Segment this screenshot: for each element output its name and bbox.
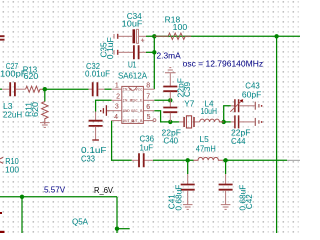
svg-text:SA612A: SA612A (118, 70, 147, 80)
svg-text:C40: C40 (164, 136, 179, 146)
capacitor C27 100pF (2, 82, 26, 96)
label 0.68uF of C42 rotated (237, 185, 247, 211)
label C43 (245, 80, 260, 90)
svg-text:OSC_E: OSC_E (131, 100, 143, 104)
label 22pF of C44 (231, 127, 251, 137)
pin 8 of U1 (143, 83, 154, 90)
svg-text:100: 100 (5, 165, 19, 175)
trimmer capacitor C43 60pF (230, 99, 254, 112)
pin name IN_B (123, 100, 133, 104)
crystal Y7 (179, 116, 200, 128)
pin name OSC_E (131, 100, 143, 104)
capacitor C40 22pF (163, 100, 177, 122)
pin 3 of U1 (107, 104, 121, 111)
capacitor C39 22pF (163, 87, 177, 101)
pin name GND (123, 110, 131, 114)
junction node C35 row (152, 50, 156, 54)
label 1uF of C36 (140, 143, 154, 153)
label L3 (3, 101, 13, 111)
pin 7 of U1 (143, 94, 154, 101)
capacitor C37 small on pin 3 (100, 105, 110, 116)
label 10uH of L4 (201, 106, 218, 116)
pin 5 of U1 with open-end circle (143, 114, 156, 121)
svg-text:5: 5 (147, 114, 151, 121)
wire pin 2 to C33 branch (96, 100, 112, 111)
wire input row segment after R13 (43, 88, 89, 90)
svg-text:2: 2 (116, 94, 120, 101)
svg-text:22uH: 22uH (3, 109, 22, 119)
svg-text:6: 6 (146, 104, 150, 111)
wire L4 to junction and up to C43 (224, 106, 231, 122)
wire bottom rail 5.57V row (0, 196, 117, 198)
label 2.3mA (157, 50, 182, 60)
label SA612A (118, 70, 147, 80)
ground for C41 (183, 205, 193, 210)
wire vertical from top net down to pin 8 of U1 (153, 36, 155, 89)
capacitor C41 0.68uF (181, 174, 195, 204)
label C33 (81, 153, 95, 163)
svg-text:10uF: 10uF (122, 18, 143, 28)
svg-text:2.3mA: 2.3mA (157, 50, 182, 60)
wire vertical at x=22 down from bottom rail (21, 197, 23, 233)
svg-text:osc = 12.796140MHz: osc = 12.796140MHz (183, 58, 264, 68)
label R13 (23, 65, 38, 75)
svg-text:0.68uF: 0.68uF (173, 185, 183, 211)
wire gray highlighted segment at right of L5 row (287, 159, 300, 161)
transistor Q5 fragment at bottom-left edge (0, 212, 5, 233)
label Y7 (184, 99, 194, 109)
ground for C42 (221, 205, 231, 210)
label L4 (205, 99, 214, 109)
label 0.1uF of C35 rotated (105, 37, 115, 59)
svg-text:1uF: 1uF (140, 143, 154, 153)
wire vertical right-side long net (276, 36, 278, 233)
capacitor C35 0.1uF (114, 45, 146, 59)
wire pin 7 to oscillator column (154, 99, 170, 101)
label 47mH of L5 (196, 144, 216, 154)
wire top net row from C34 to right edge (146, 35, 300, 37)
svg-text:C44: C44 (231, 136, 246, 146)
junction node top net at x154 (152, 34, 156, 38)
pin name IN_A (123, 89, 133, 93)
label osc frequency (183, 58, 264, 68)
pin 2 of U1 (112, 94, 122, 101)
junction node bottom x117 (115, 227, 119, 231)
svg-text:620: 620 (30, 102, 40, 117)
label 10uF (122, 18, 143, 28)
label C27 (6, 61, 19, 71)
label Q5A (72, 217, 88, 227)
wire between C32 and pin 1 (105, 88, 112, 90)
junction node crystal row left (168, 120, 172, 124)
wire C35 to vertical net (146, 51, 154, 53)
junction node oscillator C39/C40 (168, 98, 172, 102)
pin end ticks right of C44 (255, 118, 262, 126)
wire L5 right to right edge (223, 159, 287, 161)
label R_6V (94, 185, 113, 195)
svg-text:47mH: 47mH (196, 144, 216, 154)
label 22uH of L3 (3, 109, 22, 119)
capacitor C44 22pF (231, 115, 255, 128)
label 620 of R11 rotated (30, 102, 40, 117)
wire C36 to L5 row and right to gray end (153, 159, 194, 161)
label R10 (5, 156, 19, 166)
label R18 (165, 15, 181, 25)
svg-text:OUT_B: OUT_B (131, 120, 143, 124)
svg-text:3: 3 (115, 104, 119, 111)
wire C41 top lead (187, 160, 189, 174)
capacitor C36 1uF series (132, 153, 153, 167)
label 5.57V (44, 184, 66, 194)
label 100 of R10 (5, 165, 19, 175)
label C32 (86, 61, 100, 71)
label C42 rotated (244, 194, 254, 209)
svg-text:C39: C39 (182, 82, 192, 97)
pin name Vcc (136, 89, 143, 93)
wire pin 6 to crystal row (154, 111, 170, 122)
wire junction to C44 (224, 121, 231, 123)
label 60pF (242, 90, 262, 100)
ground for R11 (40, 123, 50, 128)
label 0.68uF of C41 rotated (173, 185, 183, 211)
svg-text:620: 620 (24, 71, 39, 81)
wire R11 top lead (44, 89, 46, 101)
inductor L5 47mH (194, 157, 223, 160)
label U1 (128, 60, 137, 70)
svg-text:U1: U1 (128, 60, 137, 70)
svg-text:10uH: 10uH (201, 106, 218, 116)
pin name OSC_B (131, 110, 143, 114)
capacitor fragment at top-left edge (0, 36, 5, 40)
junction node top net at x276 (274, 34, 278, 38)
junction node L5 left (186, 158, 190, 162)
resistor R11 620 vertical (42, 102, 48, 125)
label C40 (164, 136, 179, 146)
svg-text:0.1uF: 0.1uF (105, 37, 115, 59)
resistor R18 100 (154, 33, 191, 39)
label C36 (140, 133, 155, 143)
capacitor C32 0.01uF (89, 82, 105, 96)
svg-text:Vcc: Vcc (136, 89, 143, 93)
inductor L4 10uH (200, 119, 224, 122)
op-amp U1 body SA612A (122, 86, 144, 123)
label 0.01uF (85, 69, 110, 79)
junction node crystal row right (222, 120, 226, 124)
pin 6 of U1 (143, 104, 154, 111)
capacitor C33 0.1uF on pin2 branch (89, 112, 103, 140)
pin name OUT_B (131, 120, 143, 124)
label 22pF of C39 rotated (175, 78, 185, 98)
label L5 (200, 134, 210, 144)
pin 1 of U1 (112, 83, 122, 90)
svg-text:5.57V: 5.57V (44, 184, 66, 194)
svg-text:0.01uF: 0.01uF (85, 69, 110, 79)
svg-text:8: 8 (146, 83, 150, 90)
wire C42 top lead (225, 160, 227, 174)
svg-text:R_6V: R_6V (94, 185, 113, 195)
svg-text:C33: C33 (81, 153, 95, 163)
capacitor C42 0.68uF (219, 174, 233, 204)
label 0.1uF of C33 (81, 145, 107, 155)
pin name OUT_A (123, 120, 135, 124)
svg-text:OSC_B: OSC_B (131, 110, 143, 114)
label R11 rotated (23, 102, 33, 117)
pin 4 of U1 (112, 114, 122, 121)
label C41 rotated (167, 194, 177, 209)
label 620 of R13 (24, 71, 39, 81)
resistor R13 620 (26, 86, 43, 92)
resistor R10 fragment at left edge (0, 157, 3, 163)
label C34 (127, 11, 142, 21)
svg-text:C42: C42 (244, 194, 254, 209)
wire vertical at x=117 down from bottom rail (116, 197, 118, 233)
label 100pF (0, 68, 27, 78)
svg-text:7: 7 (146, 94, 150, 101)
svg-text:100: 100 (173, 22, 188, 32)
wire stub right from bottom junction (117, 228, 130, 230)
svg-text:Y7: Y7 (184, 99, 194, 109)
label C44 (231, 136, 246, 146)
junction node bottom rail (20, 195, 24, 199)
svg-text:4: 4 (114, 114, 118, 121)
svg-text:60pF: 60pF (242, 90, 262, 100)
junction node L5 right (223, 158, 227, 162)
label C39 rotated (182, 82, 192, 97)
label 22pF of C40 (162, 127, 182, 137)
capacitor C34 10uF polarized (114, 29, 146, 43)
svg-text:IN_A: IN_A (123, 89, 133, 93)
label 100 of R18 (173, 22, 188, 32)
svg-text:Q5A: Q5A (72, 217, 88, 227)
svg-text:GND: GND (123, 110, 131, 114)
wire crystal row left segment (170, 121, 179, 123)
label C35 rotated (99, 42, 109, 57)
ground above C39 inverted (165, 68, 176, 86)
pin end ticks right of C43 (255, 102, 262, 110)
svg-text:1: 1 (115, 83, 119, 90)
wire left stub of input row (0, 88, 2, 90)
junction node input row R13/R11 (43, 87, 47, 91)
wire pin 4 down and right to C36 (112, 121, 132, 161)
